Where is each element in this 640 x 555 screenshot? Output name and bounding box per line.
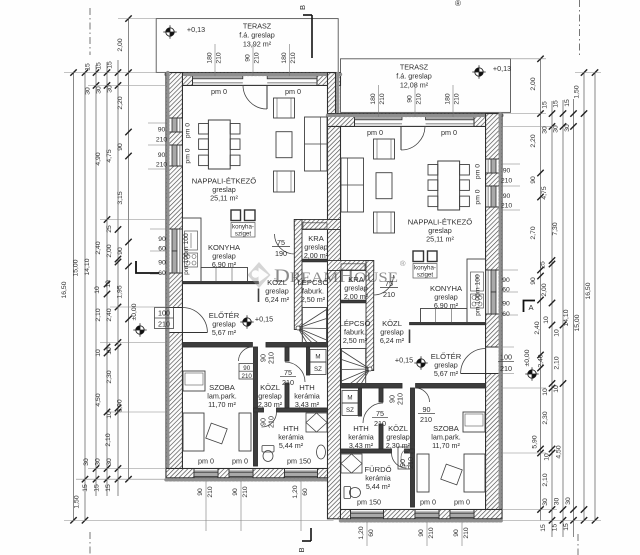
right unit bedroom rug (rotated) xyxy=(441,464,462,485)
svg-text:2,40: 2,40 xyxy=(534,321,541,334)
svg-text:180: 180 xyxy=(445,93,452,105)
svg-text:15: 15 xyxy=(96,62,103,70)
svg-text:30: 30 xyxy=(107,85,114,93)
svg-text:15,00: 15,00 xyxy=(73,259,80,276)
left unit washer M xyxy=(310,350,326,363)
section mark B top xyxy=(311,15,313,58)
svg-text:210: 210 xyxy=(428,527,435,539)
svg-text:1,50: 1,50 xyxy=(74,495,81,508)
svg-text:210: 210 xyxy=(379,93,386,105)
svg-text:10: 10 xyxy=(105,280,112,288)
left unit dining table xyxy=(208,120,230,169)
svg-text:180: 180 xyxy=(207,52,214,64)
right unit kitchen island xyxy=(428,251,438,262)
right unit bathroom door arc xyxy=(392,453,407,468)
section mark A right xyxy=(524,301,536,313)
svg-text:B: B xyxy=(298,5,307,10)
svg-text:90: 90 xyxy=(158,127,166,134)
section mark A left xyxy=(136,261,159,273)
svg-text:DREAMHOUSE: DREAMHOUSE xyxy=(274,266,398,287)
right unit bedroom door arc xyxy=(416,388,430,402)
svg-text:B: B xyxy=(297,547,306,552)
left unit dining chairs right xyxy=(230,124,240,135)
svg-text:1,20: 1,20 xyxy=(358,526,365,539)
svg-text:2,30: 2,30 xyxy=(106,370,113,383)
left unit kitchen rear partition xyxy=(182,282,258,284)
svg-text:15: 15 xyxy=(82,484,89,492)
right unit terrace door arc xyxy=(401,126,425,150)
left terrace outline xyxy=(156,19,338,73)
svg-text:30: 30 xyxy=(96,86,103,94)
svg-text:16,50: 16,50 xyxy=(61,281,68,298)
svg-text:SZ: SZ xyxy=(314,366,322,373)
svg-text:2,10: 2,10 xyxy=(542,473,549,486)
svg-text:f.á. greslap: f.á. greslap xyxy=(239,31,275,40)
svg-text:210: 210 xyxy=(207,486,214,498)
left unit shower xyxy=(306,413,327,432)
right terrace outline xyxy=(341,59,511,113)
svg-text:+0,15: +0,15 xyxy=(395,356,413,365)
svg-text:210: 210 xyxy=(254,52,261,64)
svg-text:pm 0: pm 0 xyxy=(475,189,482,204)
svg-text:pm 150: pm 150 xyxy=(357,498,381,507)
left unit kitchen counter along wall xyxy=(182,218,201,282)
svg-text:pm 0: pm 0 xyxy=(475,164,482,179)
svg-text:90: 90 xyxy=(197,488,204,496)
svg-text:konyha-: konyha- xyxy=(414,265,436,272)
svg-text:90: 90 xyxy=(503,193,511,200)
svg-text:2,20: 2,20 xyxy=(530,134,537,147)
svg-text:90: 90 xyxy=(502,301,510,308)
svg-text:210: 210 xyxy=(383,290,395,299)
svg-text:15: 15 xyxy=(540,524,547,532)
svg-text:100: 100 xyxy=(158,309,170,318)
right unit foyer level +0,15 xyxy=(414,356,427,369)
svg-text:10: 10 xyxy=(554,329,561,337)
left chain ticks xyxy=(70,69,76,75)
svg-text:10: 10 xyxy=(95,349,102,357)
left unit foyer stub partition xyxy=(258,289,260,303)
svg-text:60: 60 xyxy=(502,311,510,318)
right unit sofa xyxy=(341,158,364,212)
right unit bottom exterior wall with windows xyxy=(341,510,503,519)
section mark B bottom xyxy=(310,528,312,541)
svg-text:2,30 m²: 2,30 m² xyxy=(258,400,283,409)
left unit partition bedroom | hall xyxy=(254,347,258,466)
svg-text:30: 30 xyxy=(83,458,90,466)
svg-text:90: 90 xyxy=(453,529,460,537)
svg-text:210: 210 xyxy=(406,457,415,469)
svg-text:13,92 m²: 13,92 m² xyxy=(243,40,272,49)
svg-text:30: 30 xyxy=(565,497,572,505)
right bottom dashed setback line xyxy=(577,534,579,555)
left unit armchair 1 xyxy=(274,98,295,118)
svg-text:15: 15 xyxy=(105,484,112,492)
svg-text:2,10: 2,10 xyxy=(105,433,112,446)
svg-text:±0,00: ±0,00 xyxy=(524,349,531,366)
left unit left exterior wall with windows and entrance door 100/210 xyxy=(166,73,182,478)
svg-text:210: 210 xyxy=(156,162,168,169)
svg-text:14,10: 14,10 xyxy=(563,309,570,326)
svg-text:90: 90 xyxy=(418,529,425,537)
svg-text:2,00: 2,00 xyxy=(106,244,113,257)
svg-text:210: 210 xyxy=(242,486,249,498)
left unit terrace door arc xyxy=(243,85,267,109)
left unit toilet xyxy=(262,446,274,453)
left unit washbasin xyxy=(317,445,326,459)
svg-text:210: 210 xyxy=(454,93,461,105)
svg-text:6,90 m²: 6,90 m² xyxy=(434,301,459,310)
left unit HTH door arc xyxy=(285,362,305,382)
svg-text:3,43 m²: 3,43 m² xyxy=(295,400,320,409)
right unit top wall window dim lines xyxy=(378,85,380,117)
svg-text:SZ: SZ xyxy=(346,407,354,414)
svg-text:15: 15 xyxy=(94,484,101,492)
svg-text:15: 15 xyxy=(542,101,549,109)
right unit pantry door arc xyxy=(374,275,394,295)
svg-text:pm 0: pm 0 xyxy=(454,498,470,507)
left unit bathroom door arc xyxy=(262,412,277,427)
svg-text:2,00: 2,00 xyxy=(541,283,548,296)
svg-text:2,40: 2,40 xyxy=(538,354,545,367)
svg-text:pm 0: pm 0 xyxy=(211,87,227,96)
right unit M/SZ niche wall xyxy=(359,388,362,416)
right side extension lines xyxy=(511,58,546,60)
svg-text:75: 75 xyxy=(376,409,384,418)
svg-text:210: 210 xyxy=(267,352,276,364)
left unit partition hall | HTH, door gap xyxy=(285,347,289,361)
right unit kitchen sink xyxy=(471,272,484,291)
left unit foyer level +0,15 xyxy=(240,315,253,328)
right unit armchair 2 xyxy=(374,212,395,233)
left unit entrance door arc xyxy=(182,308,207,333)
left unit wall left of pantry/stairs xyxy=(294,220,302,330)
left top dashed setback line xyxy=(89,8,91,55)
right unit washer M xyxy=(342,391,358,404)
svg-text:2,50 m²: 2,50 m² xyxy=(301,295,326,304)
left side extension lines xyxy=(64,72,166,74)
svg-text:100: 100 xyxy=(500,353,512,362)
svg-text:60: 60 xyxy=(502,287,510,294)
svg-text:pm 0: pm 0 xyxy=(420,498,436,507)
svg-text:5,67 m²: 5,67 m² xyxy=(434,369,459,378)
svg-text:4,50: 4,50 xyxy=(95,393,102,406)
right top dashed setback line xyxy=(579,0,581,55)
svg-text:pm 0: pm 0 xyxy=(185,148,192,163)
svg-text:2,50 m²: 2,50 m² xyxy=(343,336,368,345)
svg-text:10: 10 xyxy=(542,388,549,396)
left unit bedroom chest xyxy=(183,413,204,451)
svg-text:90: 90 xyxy=(407,95,414,103)
svg-text:210: 210 xyxy=(463,527,470,539)
svg-text:TERASZ: TERASZ xyxy=(243,22,272,31)
svg-text:pm 0: pm 0 xyxy=(198,457,214,466)
left unit bedroom wardrobe xyxy=(239,413,251,451)
right chain ticks xyxy=(537,56,543,62)
svg-text:180: 180 xyxy=(281,52,288,64)
left unit wall above pantry (load bearing) xyxy=(294,220,340,230)
svg-text:190: 190 xyxy=(275,249,287,258)
right unit kitchen stove xyxy=(471,294,484,308)
svg-text:7,30: 7,30 xyxy=(552,222,559,235)
left unit top exterior wall with windows 180/210, door 90/210, window 180/210 xyxy=(166,73,341,86)
svg-text:90: 90 xyxy=(423,405,431,414)
svg-text:pm 0: pm 0 xyxy=(441,128,457,137)
svg-text:2,40: 2,40 xyxy=(106,308,113,321)
right unit dining chairs left xyxy=(460,165,470,176)
right unit partition above bathroom, door gap xyxy=(405,449,415,453)
left unit sofa xyxy=(305,117,328,171)
svg-text:10: 10 xyxy=(544,453,551,461)
svg-text:60: 60 xyxy=(368,529,375,537)
left unit bedroom door size 90/210 xyxy=(239,364,255,380)
svg-text:90: 90 xyxy=(530,176,537,184)
svg-text:pm 150: pm 150 xyxy=(287,457,311,466)
left unit pantry cabinet xyxy=(303,223,327,229)
right unit wall between KRA and stairs xyxy=(342,300,367,303)
svg-text:2,00: 2,00 xyxy=(117,38,124,51)
svg-text:±0,00: ±0,00 xyxy=(131,303,138,320)
right terrace level mark +0,13 xyxy=(472,65,485,78)
svg-text:konyha-: konyha- xyxy=(232,224,254,231)
svg-text:6,24 m²: 6,24 m² xyxy=(265,295,290,304)
svg-text:90: 90 xyxy=(158,260,166,267)
svg-text:75: 75 xyxy=(277,238,285,247)
left unit bottom exterior wall with windows xyxy=(166,469,328,478)
svg-text:25,11 m²: 25,11 m² xyxy=(426,235,454,244)
svg-text:60: 60 xyxy=(158,246,166,253)
right unit top exterior wall xyxy=(328,114,503,127)
svg-text:210: 210 xyxy=(158,320,170,329)
left unit bottom window dim lines xyxy=(205,481,207,531)
right unit bedroom dresser xyxy=(463,412,485,432)
left unit top wall window dim lines xyxy=(214,44,216,76)
svg-text:15: 15 xyxy=(563,523,570,531)
svg-text:6,24 m²: 6,24 m² xyxy=(380,336,405,345)
left unit bedroom door arc xyxy=(239,347,253,361)
svg-text:15: 15 xyxy=(107,61,114,69)
right unit entrance door arc xyxy=(461,349,486,374)
svg-text:15,00: 15,00 xyxy=(574,314,581,331)
right unit winder stairs xyxy=(342,349,373,386)
svg-text:2,70: 2,70 xyxy=(530,226,537,239)
svg-text:90: 90 xyxy=(117,143,124,151)
right unit partition above bedroom row xyxy=(416,384,486,389)
svg-text:30: 30 xyxy=(95,458,102,466)
left unit armchair 2 xyxy=(274,171,295,192)
svg-text:25: 25 xyxy=(106,225,113,233)
svg-text:11,70 m²: 11,70 m² xyxy=(208,400,236,409)
svg-text:210: 210 xyxy=(501,178,513,185)
svg-text:60: 60 xyxy=(158,270,166,277)
right unit kitchen counter along wall xyxy=(467,259,486,323)
svg-text:4,90: 4,90 xyxy=(95,152,102,165)
svg-text:3,43 m²: 3,43 m² xyxy=(349,441,374,450)
left unit wall between KRA and stairs xyxy=(302,259,327,262)
right unit wall above pantry (load bearing) xyxy=(328,261,374,271)
left unit entrance door size 100/210 xyxy=(155,308,174,329)
left unit pantry door arc xyxy=(275,234,295,254)
svg-text:pm 0: pm 0 xyxy=(232,457,248,466)
svg-text:10: 10 xyxy=(106,347,113,355)
svg-text:210: 210 xyxy=(396,393,405,405)
svg-text:60: 60 xyxy=(302,488,309,496)
svg-text:+0,15: +0,15 xyxy=(255,315,273,324)
right unit pantry cabinet xyxy=(341,264,365,270)
svg-text:90: 90 xyxy=(117,247,124,255)
right unit kitchen counter lower run xyxy=(421,309,468,323)
svg-text:2,00 m²: 2,00 m² xyxy=(344,292,369,301)
svg-text:pm 100: pm 100 xyxy=(183,252,190,275)
right unit bedroom wardrobe xyxy=(417,454,429,492)
svg-text:210: 210 xyxy=(216,52,223,64)
svg-text:210: 210 xyxy=(282,378,294,387)
right unit partition bedroom | hall xyxy=(411,388,415,507)
left unit kitchen counter lower run xyxy=(201,268,248,282)
svg-text:5,67 m²: 5,67 m² xyxy=(212,328,237,337)
left dimension chain lines xyxy=(73,73,75,521)
svg-text:25: 25 xyxy=(540,261,547,269)
left unit dryer SZ xyxy=(310,362,326,375)
right unit coffee table xyxy=(376,173,392,199)
right dimension chain lines xyxy=(540,59,542,521)
svg-text:11,70 m²: 11,70 m² xyxy=(432,441,460,450)
right unit HTH door arc xyxy=(363,403,383,423)
left unit bedroom rug (rotated) xyxy=(206,423,227,444)
right unit dryer SZ xyxy=(342,403,358,416)
left unit partition above bathroom, door gap xyxy=(254,408,264,412)
left terrace level mark +0,13 xyxy=(163,25,176,38)
svg-text:1,95: 1,95 xyxy=(117,285,124,298)
svg-text:5,44 m²: 5,44 m² xyxy=(279,441,304,450)
svg-text:®: ® xyxy=(455,0,461,8)
left unit kitchen stove xyxy=(185,253,198,267)
svg-text:2,20: 2,20 xyxy=(117,96,124,109)
svg-text:pm 0: pm 0 xyxy=(367,128,383,137)
left bottom dashed setback line xyxy=(89,532,91,555)
svg-text:5,90: 5,90 xyxy=(117,399,124,412)
svg-text:2,30: 2,30 xyxy=(542,411,549,424)
right unit dining table xyxy=(438,161,460,210)
svg-text:25,11 m²: 25,11 m² xyxy=(210,194,238,203)
svg-text:90: 90 xyxy=(530,277,537,285)
svg-text:4,75: 4,75 xyxy=(541,186,548,199)
svg-text:30: 30 xyxy=(542,126,549,134)
svg-text:90: 90 xyxy=(232,488,239,496)
svg-text:®: ® xyxy=(400,259,406,268)
svg-text:10: 10 xyxy=(553,385,560,393)
left unit kitchen island xyxy=(231,210,241,221)
svg-text:15: 15 xyxy=(552,524,559,532)
left unit winder stairs xyxy=(296,308,327,345)
watermark logo xyxy=(248,262,271,288)
svg-text:pm 0: pm 0 xyxy=(185,123,192,138)
svg-text:15: 15 xyxy=(85,63,92,71)
svg-text:14,10: 14,10 xyxy=(84,258,91,275)
svg-text:210: 210 xyxy=(416,93,423,105)
svg-text:10: 10 xyxy=(94,286,101,294)
svg-text:30: 30 xyxy=(564,124,571,132)
svg-text:2,40: 2,40 xyxy=(95,241,102,254)
svg-text:4,50: 4,50 xyxy=(556,445,563,458)
svg-text:16,50: 16,50 xyxy=(585,282,592,299)
svg-text:210: 210 xyxy=(501,203,513,210)
svg-text:12,08 m²: 12,08 m² xyxy=(400,81,429,90)
left unit M/SZ niche wall xyxy=(307,347,310,375)
right unit kitchen island label box xyxy=(413,264,437,279)
svg-text:90: 90 xyxy=(158,152,166,159)
svg-text:210: 210 xyxy=(500,364,512,373)
svg-text:sziget: sziget xyxy=(417,272,433,279)
svg-text:3,15: 3,15 xyxy=(117,191,124,204)
svg-text:TERASZ: TERASZ xyxy=(400,63,429,72)
right unit toilet xyxy=(344,487,351,499)
svg-text:30: 30 xyxy=(106,458,113,466)
right unit shower xyxy=(341,454,362,473)
svg-text:210: 210 xyxy=(242,373,253,380)
svg-text:30: 30 xyxy=(542,498,549,506)
svg-text:30: 30 xyxy=(85,87,92,95)
svg-text:1,20: 1,20 xyxy=(292,485,299,498)
svg-text:pm 0: pm 0 xyxy=(285,87,301,96)
svg-text:+0,13: +0,13 xyxy=(187,25,205,34)
svg-text:2,10: 2,10 xyxy=(95,308,102,321)
left unit bedroom dresser xyxy=(183,371,205,391)
svg-text:15: 15 xyxy=(564,99,571,107)
right unit foyer stub partition xyxy=(409,330,411,344)
svg-text:90: 90 xyxy=(502,277,510,284)
right unit wall left of pantry/stairs xyxy=(366,261,374,371)
svg-text:pm 100: pm 100 xyxy=(475,293,482,316)
right unit right exterior wall with windows and entrance door xyxy=(486,114,502,519)
svg-text:sziget: sziget xyxy=(235,231,251,238)
right unit kitchen rear partition xyxy=(410,323,486,325)
right unit dining chairs right xyxy=(428,165,438,176)
svg-text:f.á. greslap: f.á. greslap xyxy=(396,72,432,81)
svg-text:210: 210 xyxy=(290,52,297,64)
svg-text:180: 180 xyxy=(370,93,377,105)
svg-text:2,30 m²: 2,30 m² xyxy=(386,441,411,450)
svg-text:10: 10 xyxy=(543,316,550,324)
right unit bedroom chest xyxy=(464,454,485,492)
svg-text:2,00 m²: 2,00 m² xyxy=(304,251,329,260)
right unit armchair 1 xyxy=(374,139,395,159)
left unit dining chairs left xyxy=(199,124,209,135)
svg-text:2,10: 2,10 xyxy=(554,356,561,369)
svg-text:210: 210 xyxy=(156,137,168,144)
left unit kitchen sink xyxy=(185,231,198,250)
right unit bathtub xyxy=(398,447,414,469)
svg-text:5,90: 5,90 xyxy=(532,435,539,448)
svg-text:M: M xyxy=(315,354,320,361)
svg-text:30: 30 xyxy=(554,498,561,506)
svg-text:90: 90 xyxy=(503,168,511,175)
svg-text:6,90 m²: 6,90 m² xyxy=(212,260,237,269)
svg-text:5,44 m²: 5,44 m² xyxy=(366,482,391,491)
left unit coffee table xyxy=(276,132,292,158)
svg-text:4,75: 4,75 xyxy=(106,149,113,162)
svg-text:210: 210 xyxy=(420,415,432,424)
svg-text:M: M xyxy=(347,395,352,402)
svg-text:2,00: 2,00 xyxy=(530,77,537,90)
svg-text:210: 210 xyxy=(267,416,276,428)
left unit partition above bedroom row xyxy=(182,343,252,348)
right unit bottom window dim lines xyxy=(366,522,368,546)
party wall between units xyxy=(328,73,336,114)
svg-text:90: 90 xyxy=(158,236,166,243)
svg-text:15: 15 xyxy=(553,100,560,108)
svg-text:75: 75 xyxy=(284,368,292,377)
